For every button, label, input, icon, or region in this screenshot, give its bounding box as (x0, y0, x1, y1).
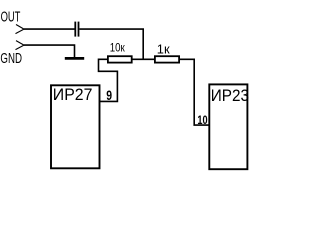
resistor R1 body (108, 56, 132, 62)
svg-text:OUT: OUT (1, 9, 21, 25)
resistor R2 body (155, 56, 179, 62)
connector GND pin (16, 41, 25, 50)
svg-text:ИР27: ИР27 (53, 85, 93, 104)
wire from GND connector to ground symbol (24, 45, 75, 57)
svg-text:10: 10 (197, 114, 207, 127)
svg-text:1к: 1к (157, 41, 170, 56)
connector OUT pin (16, 25, 25, 34)
wire between R1 and R2 (132, 58, 155, 60)
wire from OUT connector to capacitor (24, 28, 75, 30)
ground symbol (65, 57, 84, 60)
wire from capacitor to junction between resistors (79, 29, 143, 59)
svg-text:GND: GND (0, 51, 22, 67)
IC U2 body (209, 84, 247, 169)
wire from R2 to pin 10 of U2 (179, 59, 209, 125)
IC U1 body (51, 85, 100, 168)
capacitor C1 right plate (78, 22, 80, 37)
svg-text:10к: 10к (110, 41, 126, 55)
capacitor C1 left plate (74, 22, 76, 37)
svg-text:ИР23: ИР23 (211, 86, 249, 105)
wire from resistor R1 down to pin 9 of U1 (99, 59, 118, 101)
svg-text:9: 9 (106, 88, 112, 104)
